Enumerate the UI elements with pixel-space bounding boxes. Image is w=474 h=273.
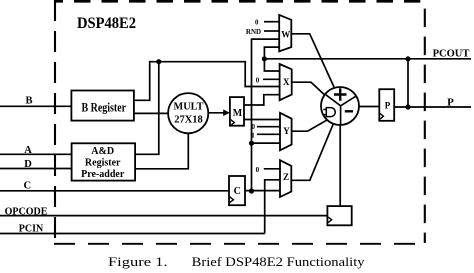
dashed boundary left	[54, 0, 56, 244]
svg-text:Z: Z	[283, 172, 289, 182]
wire A input	[0, 153, 72, 155]
wire P output	[394, 106, 471, 108]
dashed boundary bottom	[54, 243, 425, 245]
logic gate symbol	[326, 108, 335, 117]
wire PCOUT line	[264, 58, 471, 60]
node A:B junction	[156, 59, 161, 64]
svg-text:D: D	[24, 159, 32, 170]
mux Z	[280, 160, 291, 197]
wire W mux input RND	[264, 30, 279, 32]
wire M to X mux	[244, 95, 280, 105]
svg-text:Pre-adder: Pre-adder	[81, 169, 125, 180]
wire ALU to P register	[359, 106, 379, 108]
svg-text:Brief DSP48E2 Functionality: Brief DSP48E2 Functionality	[192, 254, 366, 269]
register B Register	[71, 91, 133, 121]
register M	[230, 97, 244, 126]
register OPCODE	[327, 206, 351, 225]
wire Y mux input 1	[257, 133, 280, 135]
wire Y mux to ALU	[292, 120, 328, 131]
node P junction	[405, 104, 410, 109]
svg-text:0: 0	[256, 76, 260, 84]
wire PCIN input to Z mux	[0, 180, 280, 234]
node PCOUT-P junction	[405, 56, 410, 61]
svg-text:Register: Register	[85, 157, 121, 168]
wire C register to Z mux	[245, 190, 280, 192]
svg-text:RND: RND	[246, 28, 261, 36]
mux W	[279, 15, 291, 52]
svg-text:B Register: B Register	[82, 100, 127, 114]
wire MULT to M with arrow	[208, 112, 227, 114]
svg-text:Y: Y	[283, 126, 290, 136]
wire Y mux input 0	[257, 126, 280, 128]
svg-text:MULT: MULT	[174, 101, 205, 113]
wire P feedback to W mux	[264, 47, 279, 59]
wire OPCODE input	[0, 215, 327, 217]
minus sign	[345, 110, 353, 112]
wire W mux input 0	[264, 21, 279, 23]
wire Z mux input 0	[264, 168, 280, 170]
wire AD to MULT	[135, 133, 188, 169]
wire P feedback to X mux	[264, 59, 279, 71]
wire Z mux to ALU	[291, 124, 333, 181]
wire P to PCOUT vertical	[407, 59, 409, 107]
svg-text:A&D: A&D	[91, 146, 114, 157]
mux X	[280, 64, 292, 100]
svg-text:PCOUT: PCOUT	[433, 49, 470, 60]
wire X mux input 0	[263, 78, 280, 80]
svg-text:P: P	[447, 96, 454, 108]
svg-text:0: 0	[252, 123, 256, 131]
svg-text:1: 1	[251, 132, 255, 140]
wire C input	[0, 190, 229, 192]
svg-text:Figure 1.: Figure 1.	[108, 254, 168, 269]
wire W mux to ALU	[291, 34, 334, 87]
node C to Y junction	[249, 141, 254, 146]
node PCOUT junction	[262, 56, 267, 61]
svg-text:X: X	[283, 77, 290, 87]
wire C to Y mux	[252, 142, 281, 144]
svg-text:C: C	[234, 186, 241, 197]
wire C feed up to W	[252, 39, 280, 191]
svg-text:P: P	[385, 100, 391, 110]
plus sign	[334, 88, 347, 100]
dashed boundary right	[424, 9, 426, 243]
register P	[379, 89, 394, 121]
svg-text:0: 0	[255, 19, 259, 27]
svg-text:27X18: 27X18	[174, 114, 203, 126]
svg-text:DSP48E2: DSP48E2	[77, 15, 136, 32]
wire B to A:B concat	[134, 62, 280, 101]
mux Y	[280, 113, 292, 151]
wire A to A:B concat	[135, 62, 159, 155]
op-amp ALU circle	[321, 87, 359, 125]
svg-text:PCIN: PCIN	[19, 224, 44, 235]
register A&D Register Pre-adder	[72, 143, 136, 180]
svg-text:OPCODE: OPCODE	[5, 206, 48, 217]
register C	[229, 176, 245, 205]
wire B to MULT	[134, 112, 168, 114]
wire D input	[0, 168, 72, 170]
wire X mux to ALU	[292, 82, 325, 95]
node C junction	[249, 188, 254, 193]
wire M to Y mux	[244, 119, 280, 121]
svg-text:W: W	[281, 30, 290, 40]
wire B input	[0, 105, 71, 107]
svg-text:A: A	[24, 145, 32, 156]
svg-text:B: B	[25, 96, 32, 107]
svg-text:0: 0	[256, 166, 260, 174]
multiplier MULT 27X18	[168, 93, 208, 133]
svg-text:C: C	[24, 181, 32, 192]
dashed boundary top	[55, 0, 421, 3]
svg-text:M: M	[233, 108, 243, 119]
wire OPCODE register to ALU	[339, 125, 341, 206]
